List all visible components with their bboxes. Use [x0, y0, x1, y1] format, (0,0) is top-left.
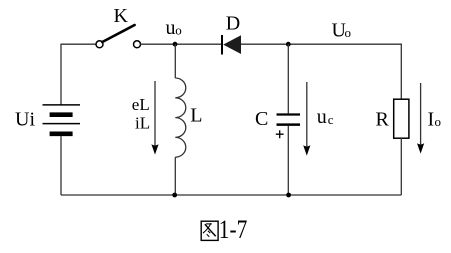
capacitor C top plate [277, 113, 301, 115]
caption glyph 图 (drawn) [201, 221, 218, 240]
node Uo junction dot [286, 42, 291, 47]
wire node uo down to inductor [174, 44, 176, 78]
battery Ui plate 4 (thick short, bottom) [50, 132, 73, 137]
node uo junction dot [173, 42, 178, 47]
svg-text:o: o [435, 114, 442, 129]
arrow eL iL (inductor voltage/current arrow) [154, 81, 156, 145]
diode D triangle [223, 35, 241, 54]
wire resistor bottom to bottom wire [400, 138, 402, 195]
wire battery bottom to lower-left corner [60, 136, 62, 195]
capacitor C bottom plate [277, 123, 301, 126]
wire top-left horizontal (corner to switch) [61, 43, 96, 45]
svg-text:R: R [376, 109, 390, 131]
svg-text:o: o [345, 25, 352, 40]
svg-text:o: o [175, 23, 182, 38]
switch K right contact circle [134, 41, 141, 48]
svg-text:u: u [166, 17, 176, 39]
svg-text:L: L [190, 105, 202, 127]
wire node Uo down to capacitor top plate [287, 44, 289, 113]
svg-text:K: K [114, 5, 129, 27]
wire capacitor bottom plate to bottom wire [287, 126, 289, 195]
svg-text:1-7: 1-7 [219, 215, 248, 244]
switch K blade [102, 25, 134, 42]
battery Ui plate 1 (thin long, top) [43, 104, 81, 106]
svg-text:I: I [428, 109, 435, 131]
wire left vertical (corner down to battery top) [60, 44, 62, 105]
inductor L coil [175, 78, 186, 157]
svg-text:C: C [255, 108, 268, 130]
wire switch to diode (through node uo) [141, 43, 221, 45]
svg-text:eL: eL [132, 95, 150, 114]
svg-text:iL: iL [135, 113, 150, 132]
switch K left contact circle [96, 41, 103, 48]
battery Ui plate 3 (thin long) [43, 123, 81, 125]
svg-text:u: u [317, 106, 327, 128]
svg-text:c: c [328, 112, 334, 127]
svg-text:Ui: Ui [15, 109, 35, 131]
arrow uc (capacitor voltage arrow) [306, 82, 308, 146]
battery Ui plate 2 (thick short) [50, 112, 73, 117]
arrow Io (output current arrow) [420, 83, 422, 144]
wire bottom horizontal [61, 194, 401, 196]
svg-text:D: D [226, 13, 240, 35]
wire inductor bottom to bottom wire [174, 157, 176, 195]
junction dot L bottom [172, 193, 177, 198]
wire diode to top-right corner (through node Uo) and down to resistor [241, 44, 401, 99]
resistor R box [394, 99, 409, 138]
capacitor polarity + sign [276, 130, 284, 138]
diode D cathode bar [221, 35, 223, 55]
junction dot C bottom [286, 193, 291, 198]
